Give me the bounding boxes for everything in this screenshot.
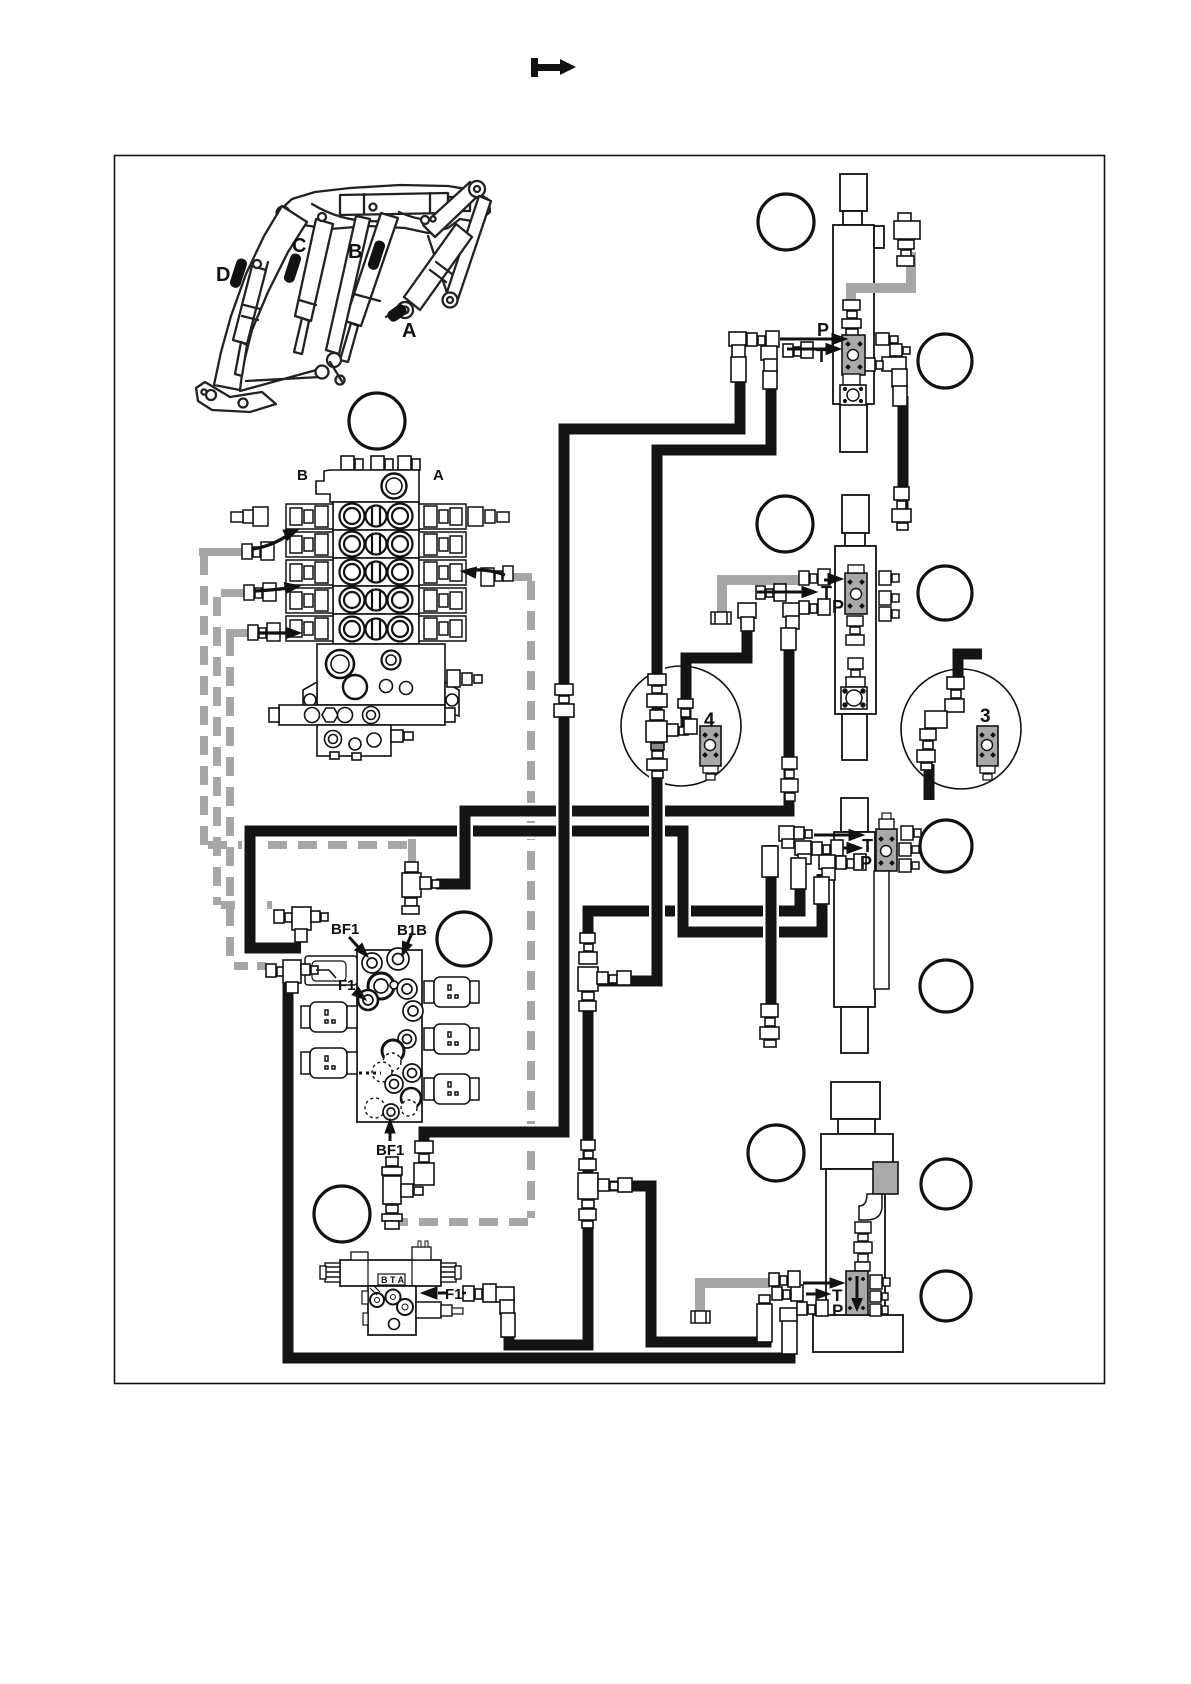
cylinder C (295, 219, 333, 321)
svg-text:3: 3 (980, 706, 991, 727)
boom upper works body (279, 185, 490, 233)
callout circle (cyl4 right upper) (921, 1159, 971, 1209)
arrow F1 port (355, 991, 360, 995)
manifold left cartridge 1 (301, 1002, 357, 1032)
cyl1 valve block right fittings (876, 333, 889, 345)
callout circle (pilot valve) (314, 1186, 370, 1242)
grease point bar D (229, 257, 249, 289)
F1 hose elbow and couplings (495, 1287, 514, 1302)
top bolts (341, 456, 354, 470)
top reference arrow symbol (531, 58, 576, 77)
arrows (253, 334, 864, 1300)
cyl3 drain tube (874, 871, 889, 989)
hydraulic hoses (black) (250, 352, 982, 1358)
callout circle (cyl4 right lower) (921, 1271, 971, 1321)
svg-text:T: T (816, 346, 827, 366)
BF1 upper tee fitting (274, 910, 284, 923)
pilot dashed riser x217 (213, 597, 221, 905)
svg-text:4: 4 (704, 710, 715, 731)
cyl4 top gray block (873, 1162, 898, 1194)
callout circle (cyl3 right lower) (920, 960, 972, 1012)
white hose couplings and fittings (266, 213, 920, 1229)
svg-text:F1: F1 (445, 1286, 463, 1303)
left port blocks (231, 504, 333, 641)
cylinder 3 body (boom) (834, 798, 875, 1053)
valve sections (333, 502, 419, 644)
svg-text:D: D (216, 264, 230, 286)
circle3 hose couplings (947, 677, 964, 689)
callout circle (cyl2 left) (757, 496, 813, 552)
hose: B1B tee to cyl2 P port (A line) (436, 650, 789, 884)
BF1 lower tee fitting (386, 1157, 398, 1166)
left boom member (214, 206, 307, 390)
row1 left extension fitting (253, 507, 268, 526)
manifold right cartridge 2 (424, 1024, 479, 1054)
hose: circle3 lower end (924, 764, 935, 800)
valve block cyl4 (846, 1271, 868, 1315)
hose: manifold F1 tee to cyl4 P port (288, 978, 790, 1358)
row1 right extension fitting (468, 507, 483, 526)
elbow to cyl2 T (738, 603, 756, 618)
lower manifold bar (269, 705, 455, 725)
svg-text:P: P (832, 1301, 843, 1320)
manifold top solenoid (305, 956, 357, 985)
pilot stub valve right (512, 573, 532, 581)
cyl2 P fittings (799, 601, 809, 614)
callout circle (cyl1 left) (758, 194, 814, 250)
cylinder 4 body (swing) (813, 1082, 903, 1352)
coupling on circle4 branch (678, 699, 693, 708)
hose: lower tee branch to cyl4 T port (592, 1186, 766, 1342)
cyl4 P riser hose and elbow (782, 1320, 797, 1354)
arrow pilot right (474, 570, 505, 575)
cyl2 right fittings (879, 571, 899, 621)
cyl4 T fittings (772, 1287, 782, 1300)
svg-text:P: P (860, 853, 872, 873)
detail circle 4 (621, 666, 741, 786)
svg-text:B1B: B1B (397, 922, 427, 939)
callout circle (cyl1 right) (918, 334, 972, 388)
hose: cyl3 T port to manifold tee (588, 858, 800, 934)
cyl2 pilot couplings (799, 571, 809, 585)
arrow BF1 lower port (389, 1128, 392, 1141)
arrow cyl4 pilot (803, 1282, 831, 1285)
manifold ports (358, 948, 423, 1120)
arrow T1 (787, 348, 828, 351)
coupling on P1 hose (555, 684, 573, 695)
svg-text:P: P (832, 597, 844, 617)
pilot dashed run to B1B tee (208, 841, 412, 849)
grease point bar A (385, 302, 408, 323)
hose: BF1 tee to cyl3 P port (B line) (250, 831, 822, 948)
cyl3 hanging hose end couplings (761, 1004, 778, 1017)
lower tee (588/1190) fitting (581, 1140, 595, 1150)
arrow T2 (757, 591, 804, 594)
detail circle 3 (901, 669, 1021, 789)
svg-text:BF1: BF1 (331, 921, 359, 938)
cylinder A (404, 224, 472, 310)
svg-text:A: A (402, 320, 416, 342)
valve block cyl3 (876, 813, 897, 871)
cyl4 T riser hose (757, 1304, 772, 1342)
pilot dashed run to BF1 tee (221, 901, 272, 909)
arrow cyl3 top port (814, 834, 851, 837)
arrow pilot row2 (253, 535, 288, 549)
pilot dashed riser x230 (226, 637, 234, 962)
arrow BF1 port (349, 937, 361, 950)
pilot drop into B1B tee (408, 837, 416, 866)
pilot dashed riser x531 (527, 581, 535, 1218)
callout circle (cyl4 left) (748, 1125, 804, 1181)
leader F1 (316, 970, 336, 978)
callout circle (manifold) (437, 912, 491, 966)
svg-text:B: B (348, 241, 362, 263)
fitting above cyl1 valve block (843, 300, 860, 310)
cylinder D (233, 266, 266, 344)
pilot lines (gray) (199, 252, 911, 1316)
manifold right cartridge 1 (424, 977, 479, 1007)
coupling on BF1 drop hose (415, 1141, 433, 1153)
pilot line cyl2 head (722, 580, 800, 621)
callout circle (cyl2 right) (918, 566, 972, 620)
pilot line cyl1 head (851, 252, 911, 312)
cylinder 2 body (dipper) (835, 495, 876, 760)
hose: cyl1 P port to BF1 manifold port (424, 352, 740, 1160)
hose: cyl1 right port stub (898, 396, 909, 518)
svg-text:A: A (433, 467, 444, 484)
valve block circle3 (977, 726, 998, 780)
hose: manifold tee down to F1 fitting (509, 975, 588, 1345)
leader F1 valve (462, 1292, 466, 1295)
svg-text:T: T (821, 583, 832, 603)
svg-text:C: C (292, 235, 306, 257)
figure frame (115, 156, 1105, 1384)
valve block cyl2 (845, 565, 867, 614)
valve block cyl1 (842, 335, 865, 375)
cyl4 P fittings (797, 1302, 807, 1315)
cyl4 elbow from gray block (854, 1194, 882, 1271)
callout circle (valve bank) (349, 393, 405, 449)
right guide links (423, 182, 482, 237)
svg-text:BF1: BF1 (376, 1142, 404, 1159)
gray hex plug (cyl4 pilot) (691, 1311, 710, 1323)
cyl3 T elbow and couplings (795, 841, 811, 855)
manifold left cartridge 2 (301, 1048, 357, 1078)
arrow pilot row5 (258, 631, 288, 634)
outlet section (303, 644, 482, 716)
flange plate cyl1 (840, 374, 866, 405)
arrow F1 valve port (438, 1292, 447, 1295)
svg-text:B: B (297, 467, 308, 484)
svg-text:F1: F1 (338, 977, 356, 994)
svg-text:B T A: B T A (381, 1275, 405, 1285)
main control valve bank (231, 456, 509, 760)
cyl1 P elbow and couplings (729, 332, 746, 346)
manifold tee (588) fitting (580, 933, 595, 943)
valve bank pilot couplings (242, 542, 830, 641)
grease point bar B (367, 239, 387, 271)
cyl2 valve fittings below (846, 616, 865, 687)
boom foot linkage (196, 382, 276, 412)
hose: cyl1 T port to circle4 tee and manifold tee (596, 358, 771, 981)
pilot stub valve row2 (199, 548, 247, 556)
coupling on cyl1 right hose end (894, 487, 909, 500)
callout circle (cyl3 right upper) (920, 820, 972, 872)
hose: circle4 tee branch to cyl2 T port (686, 610, 747, 731)
flange plate cyl2 (841, 687, 867, 709)
arrow cyl2 pilot (824, 579, 830, 582)
pilot elbow cyl1 head (898, 213, 911, 222)
cyl3 hanging hose top (762, 846, 778, 877)
arrow pilot row4 (255, 588, 288, 591)
solenoid pilot valve (B T A) (320, 1241, 463, 1335)
cyl3 right fittings (899, 826, 921, 872)
cylinder B and dipper link (345, 213, 398, 326)
pilot line cyl4 head (700, 1283, 770, 1316)
arrow T3 (843, 847, 850, 850)
arrow B1B port (406, 933, 412, 947)
pilot manifold block (301, 948, 479, 1122)
F1 tee fitting (266, 964, 276, 977)
cyl1 T elbow and couplings (761, 346, 777, 360)
grease point bar C (283, 252, 303, 284)
arrow P1 (780, 338, 834, 341)
cyl4 right fittings (870, 1275, 890, 1316)
coupling on T1 hose (648, 674, 666, 685)
hose: circle3 feed stub (958, 654, 982, 684)
cyl3 top port elbow couplings (779, 826, 794, 841)
circle4 tee fitting (650, 710, 664, 720)
coupling on cyl2 P riser (781, 757, 798, 801)
manifold right cartridge 3 (424, 1074, 479, 1104)
inlet cover plate (316, 470, 419, 502)
cyl3 P elbow and couplings (819, 855, 835, 869)
drain block (317, 725, 413, 760)
pilot dashed run to F1 tee (234, 962, 266, 970)
cylinder 1 body (bucket) (833, 174, 884, 452)
svg-text:P: P (817, 320, 829, 340)
pilot stub valve row4 (221, 589, 249, 597)
pilot dashed riser x204 (200, 556, 208, 845)
dotted gauge line (352, 1072, 381, 1075)
valve block circle4 (700, 726, 721, 780)
pilot stub valve row5 (226, 629, 253, 637)
hose: cyl3 top port free end (763, 845, 779, 1010)
arrow T4 (806, 1293, 818, 1296)
B1B tee fitting (405, 862, 418, 872)
cyl4 gray-line couplings (769, 1273, 779, 1286)
pilot dashed run to BF1 lower tee (387, 1218, 528, 1226)
right port blocks (419, 504, 509, 641)
gray hex plug (cyl2 pilot) (711, 612, 731, 624)
cyl1 right port elbow (882, 357, 906, 371)
excavator boom line-art (196, 181, 491, 412)
